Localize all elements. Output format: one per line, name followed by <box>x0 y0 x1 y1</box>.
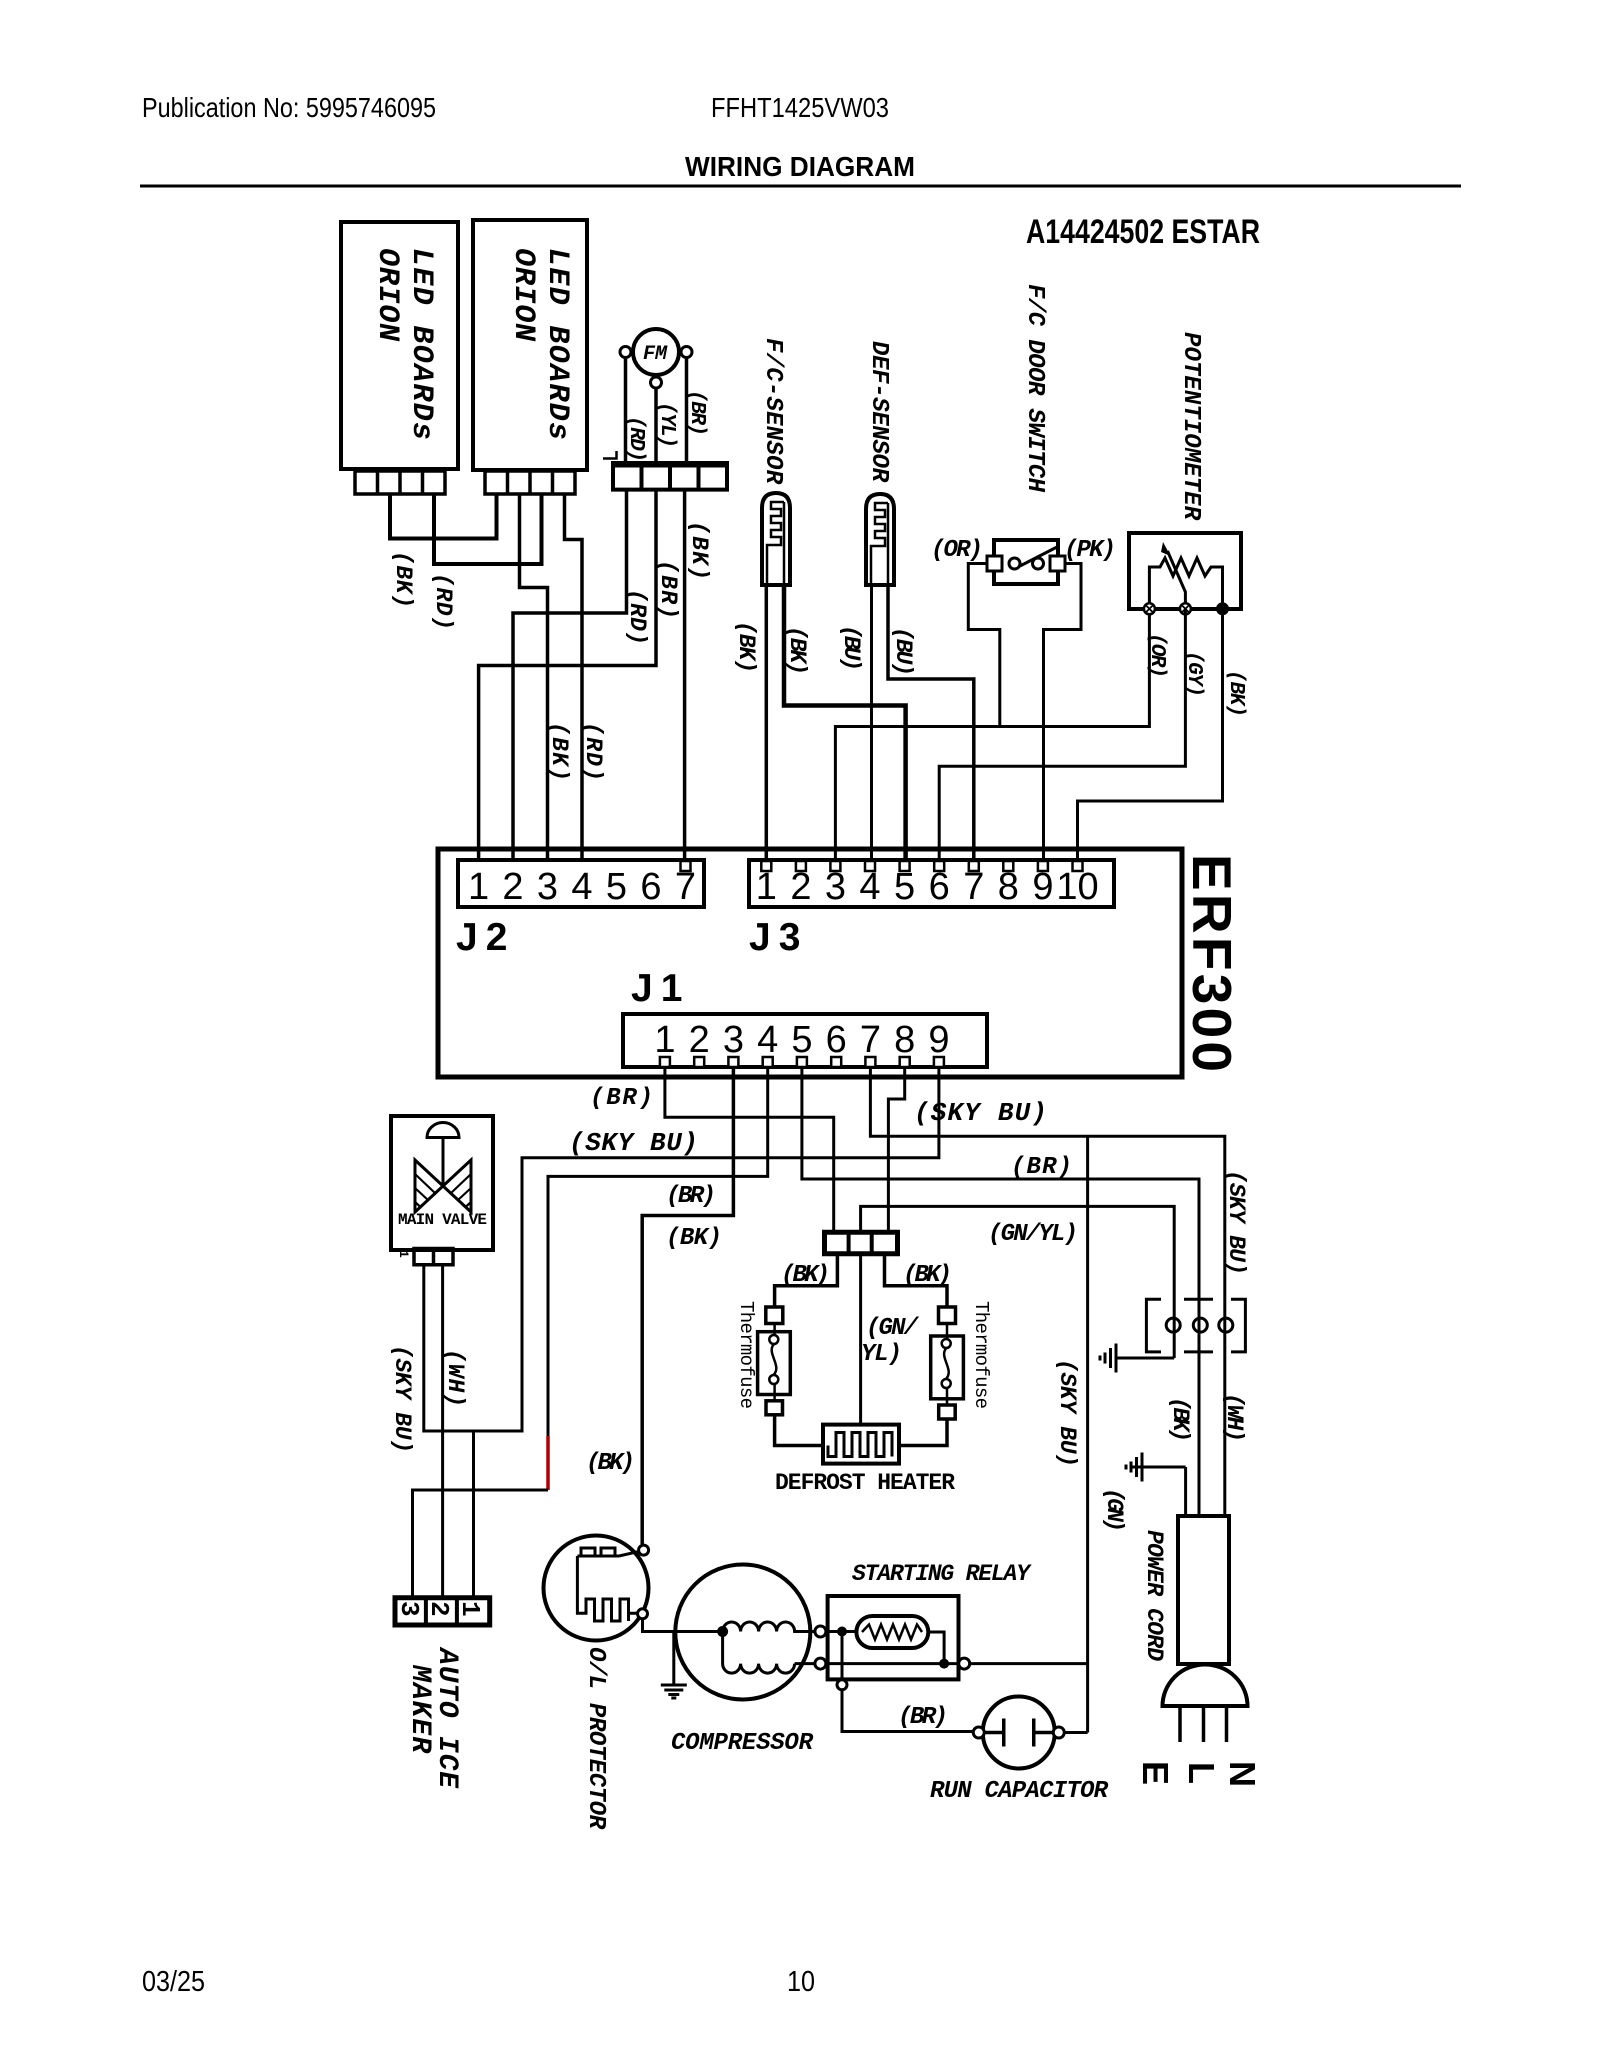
wire FM pin3 to J2 pin7 (BK) <box>683 490 687 859</box>
defrost connector dividers <box>849 1232 872 1254</box>
DEF sensor capsule <box>866 494 894 585</box>
right thermofuse bottom terminal <box>939 1405 956 1419</box>
svg-text:1: 1 <box>455 1601 485 1617</box>
door switch right terminal <box>1050 556 1065 571</box>
svg-text:FM: FM <box>643 343 668 366</box>
wire relay junction to bottom terminal <box>841 1632 844 1680</box>
svg-text:(YL): (YL) <box>655 402 678 448</box>
OL protector circle <box>544 1536 649 1641</box>
main valve connector <box>414 1249 453 1265</box>
DEF sensor right inner lead <box>887 503 890 585</box>
wire main valve right pin to icemaker pin2 (WH) <box>441 1265 444 1597</box>
svg-text:5: 5 <box>894 866 915 908</box>
svg-text:A14424502 ESTAR: A14424502 ESTAR <box>1026 213 1260 251</box>
main valve cap symbol <box>427 1123 459 1138</box>
potentiometer wiper arrowhead <box>1161 542 1171 556</box>
svg-text:7: 7 <box>860 1019 881 1061</box>
wire defrost pin2 above to right side <box>861 1206 1175 1358</box>
svg-text:F/C DOOR SWITCH: F/C DOOR SWITCH <box>1021 284 1048 493</box>
connector J3 pin numbers <box>756 866 1099 908</box>
left thermofuse body <box>758 1332 791 1395</box>
F/C sensor element <box>767 502 784 585</box>
wire LED1 pin4 to LED2 pin3 <box>434 494 542 564</box>
svg-text:(SKY BU): (SKY BU) <box>389 1345 415 1453</box>
inline connector pin circle 1 <box>1166 1318 1180 1332</box>
left thermofuse bottom terminal <box>766 1401 783 1415</box>
LED board 2 box <box>473 220 587 470</box>
FM bottom terminal <box>651 377 662 388</box>
svg-text:(BR): (BR) <box>898 1704 948 1731</box>
svg-text:(BR): (BR) <box>590 1085 653 1112</box>
OL protector top terminal <box>639 1545 649 1555</box>
door switch left terminal <box>987 556 1002 571</box>
potentiometer terminal 2 <box>1180 603 1191 614</box>
wire defrost pin2 to heater (GN/YL) <box>859 1254 862 1425</box>
relay coil zigzag <box>862 1625 922 1640</box>
F/C sensor capsule <box>762 493 790 585</box>
potentiometer resistor <box>1149 558 1222 609</box>
power plug prongs <box>1180 1706 1227 1742</box>
svg-text:2: 2 <box>502 866 523 908</box>
relay right terminal <box>959 1658 970 1669</box>
compressor start winding branch <box>723 1632 795 1674</box>
wire F/C sensor right lead to J3 pin5 (BK) <box>784 585 906 860</box>
svg-text:4: 4 <box>859 866 880 908</box>
wire J1 pin3 to OL protector (BK) <box>642 1067 733 1545</box>
inline connector middle segments <box>1184 1299 1213 1352</box>
compressor main winding <box>723 1622 815 1632</box>
left thermofuse top terminal <box>766 1307 783 1324</box>
compressor junction dot <box>717 1626 728 1637</box>
right thermofuse body <box>931 1336 964 1399</box>
wire LED1 pin2 to LED2 pin1 <box>390 494 497 539</box>
FM right terminal <box>681 347 692 358</box>
svg-text:(WH): (WH) <box>442 1349 468 1407</box>
FM left terminal <box>620 347 631 358</box>
main valve stem <box>442 1138 445 1187</box>
svg-text:ORION: ORION <box>506 248 540 342</box>
main valve bowtie symbol <box>415 1160 471 1212</box>
starting relay box <box>828 1596 959 1679</box>
svg-text:1: 1 <box>654 1019 675 1061</box>
svg-text:9: 9 <box>928 1019 949 1061</box>
wire LED2 pin4 to J2 pin4 (RD) <box>565 494 583 860</box>
wire red marked segment <box>546 1436 550 1490</box>
relay bottom terminal <box>837 1680 847 1690</box>
wire J3 pin3 to potentiometer terminal1 (OR) <box>835 609 1149 860</box>
LED board 1 box <box>341 222 458 469</box>
wire start winding to relay <box>795 1662 815 1665</box>
svg-text:(BR): (BR) <box>685 390 708 436</box>
svg-text:J1: J1 <box>631 967 690 1010</box>
svg-text:LED BOARDs: LED BOARDs <box>540 248 574 440</box>
wire J1 pin9 to main valve (SKY BU) <box>424 1067 939 1431</box>
svg-text:(RD): (RD) <box>624 416 647 462</box>
defrost heater meander <box>828 1433 892 1457</box>
left thermofuse element circles <box>769 1335 778 1344</box>
potentiometer terminal 3 junction dot <box>1216 602 1229 615</box>
svg-text:3: 3 <box>537 866 558 908</box>
svg-text:(OR): (OR) <box>1145 633 1168 678</box>
svg-text:(SKY BU): (SKY BU) <box>1223 1170 1249 1275</box>
defrost heater element box <box>823 1425 899 1464</box>
svg-text:10: 10 <box>1056 866 1098 908</box>
svg-text:(WH): (WH) <box>1221 1393 1247 1442</box>
left thermofuse element circle bottom <box>769 1375 778 1384</box>
relay terminal upper <box>815 1626 826 1637</box>
connector J3 <box>749 860 1114 907</box>
svg-text:(BK): (BK) <box>784 626 810 675</box>
wire door switch right to J3 pin9 (PK) <box>1044 564 1082 861</box>
svg-text:(BK): (BK) <box>903 1262 952 1289</box>
potentiometer box <box>1129 533 1241 609</box>
wire FM lead 2 (YL) <box>654 388 658 463</box>
icemaker connector dividers <box>426 1598 457 1625</box>
relay output junction dot <box>939 1659 949 1669</box>
inline connector pin circle 2 <box>1193 1318 1207 1332</box>
wire FM lead 3 (BR) <box>685 358 689 464</box>
svg-text:POTENTIOMETER: POTENTIOMETER <box>1177 332 1204 521</box>
wire defrost pin3 to right thermofuse (BK) <box>885 1254 948 1307</box>
wire OL bottom terminal to compressor <box>643 1619 723 1632</box>
FM connector <box>613 463 727 490</box>
svg-text:YL): YL) <box>861 1341 902 1368</box>
potentiometer wiper arrow <box>1168 551 1186 609</box>
svg-text:RUN CAPACITOR: RUN CAPACITOR <box>930 1778 1109 1805</box>
svg-text:STARTING RELAY: STARTING RELAY <box>852 1561 1032 1587</box>
wire relay input <box>826 1630 857 1633</box>
svg-text:(OR): (OR) <box>931 537 983 564</box>
connector J1 terminal squares <box>660 1057 944 1067</box>
svg-text:E: E <box>1135 1761 1176 1785</box>
svg-text:POWER CORD: POWER CORD <box>1141 1530 1167 1661</box>
svg-text:(GN): (GN) <box>1101 1488 1127 1532</box>
connector J1 <box>623 1014 987 1067</box>
wire sky-bu branch to run capacitor <box>1086 1136 1089 1732</box>
svg-text:7: 7 <box>675 866 696 908</box>
DEF sensor element <box>871 503 888 586</box>
svg-text:J2: J2 <box>456 916 515 959</box>
svg-text:(BR): (BR) <box>655 560 681 619</box>
svg-text:5: 5 <box>791 1019 812 1061</box>
wire J1 pin8 to defrost connector pin3 <box>888 1067 904 1232</box>
svg-text:(SKY BU): (SKY BU) <box>1054 1359 1080 1467</box>
wire relay right terminal to bus <box>970 1662 1088 1665</box>
wire relay lower through line <box>826 1662 959 1665</box>
svg-text:(BU): (BU) <box>890 627 916 676</box>
svg-text:MAIN VALVE: MAIN VALVE <box>398 1211 487 1229</box>
main valve bowtie hatching <box>415 1174 471 1207</box>
wire capacitor right to bus <box>1064 1731 1087 1734</box>
svg-text:Thermofuse: Thermofuse <box>970 1301 992 1409</box>
svg-text:2: 2 <box>790 866 811 908</box>
wire icemaker pin3 lower part <box>413 1490 549 1597</box>
svg-text:(BK): (BK) <box>1167 1397 1193 1442</box>
door switch box <box>994 540 1058 584</box>
svg-text:(BK): (BK) <box>666 1225 722 1252</box>
control board ERF300 box <box>438 849 1182 1077</box>
svg-text:1: 1 <box>468 866 489 908</box>
svg-text:9: 9 <box>1032 866 1053 908</box>
wire defrost pin1 to left thermofuse (BK) <box>775 1254 838 1307</box>
svg-text:Publication No: 5995746095: Publication No: 5995746095 <box>142 92 436 123</box>
LED board 1 connector <box>355 471 445 494</box>
defrost connector <box>825 1232 898 1254</box>
right thermofuse element circle bottom <box>942 1379 951 1388</box>
svg-text:MAKER: MAKER <box>404 1664 435 1754</box>
svg-text:N: N <box>1222 1761 1263 1787</box>
main valve box <box>391 1116 493 1250</box>
wire icemaker pin1 to sky-bu net <box>472 1431 475 1597</box>
run capacitor plates <box>984 1719 1053 1747</box>
svg-text:6: 6 <box>826 1019 847 1061</box>
svg-text:10: 10 <box>787 1966 815 1998</box>
svg-text:5: 5 <box>606 866 627 908</box>
OL protector element body <box>577 1552 638 1622</box>
F/C sensor right inner lead <box>783 502 786 585</box>
inline connector dashed box left bracket <box>1146 1299 1161 1352</box>
ground symbol compressor <box>661 1632 687 1699</box>
wire FM lead 1 (RD) <box>624 358 628 464</box>
wire FM pin1 to J2 pin2 (RD) <box>513 490 627 860</box>
wire FM pin2 to J2 pin1 (BR) <box>479 490 656 860</box>
connector J2 pin7 terminal square <box>681 861 691 871</box>
OL protector bottom terminal <box>638 1609 648 1619</box>
svg-text:FFHT1425VW03: FFHT1425VW03 <box>711 92 889 123</box>
svg-text:COMPRESSOR: COMPRESSOR <box>671 1730 814 1757</box>
door switch lever <box>1020 547 1057 566</box>
relay terminal lower <box>815 1658 826 1669</box>
svg-text:(BK): (BK) <box>586 1450 635 1477</box>
ground symbol 2 (GN) <box>1126 1453 1186 1517</box>
wire DEF sensor left lead to J3 pin4 (BU) <box>870 585 873 860</box>
svg-text:(SKY BU): (SKY BU) <box>914 1098 1047 1128</box>
svg-text:LED BOARDs: LED BOARDs <box>404 248 438 440</box>
svg-text:F/C-SENSOR: F/C-SENSOR <box>759 338 786 485</box>
wire DEF sensor right lead to J3 pin7 (BU) <box>888 585 974 860</box>
LED board 2 connector <box>485 471 575 494</box>
power cord box <box>1178 1516 1229 1664</box>
wire J1 pin7 sky-bu bus to power cord (WH) <box>870 1067 1224 1516</box>
connector J2 pin numbers <box>468 866 696 908</box>
svg-text:DEFROST HEATER: DEFROST HEATER <box>775 1470 955 1496</box>
svg-text:2: 2 <box>689 1019 710 1061</box>
svg-text:3: 3 <box>723 1019 744 1061</box>
wire J1 pin5 to right bus (BR) <box>802 1067 1199 1516</box>
wire potentiometer terminal3 to J3 pin10 (BK) <box>1078 609 1223 860</box>
svg-text:(RD): (RD) <box>580 722 606 781</box>
wire left thermofuse to heater <box>775 1415 823 1446</box>
wire potentiometer terminal2 to J3 pin6 (GY) <box>939 609 1185 860</box>
svg-text:(BU): (BU) <box>838 625 864 671</box>
connector J2 <box>458 860 704 907</box>
wire relay bottom to run capacitor (BR) <box>842 1690 973 1732</box>
left thermofuse element <box>772 1324 777 1401</box>
svg-text:(BK): (BK) <box>686 521 712 580</box>
svg-text:Thermofuse: Thermofuse <box>735 1301 757 1409</box>
svg-text:1: 1 <box>756 866 777 908</box>
fan motor FM circle <box>633 329 679 375</box>
relay coil stadium <box>856 1616 928 1648</box>
right thermofuse element <box>944 1324 949 1406</box>
connector J3 terminal squares <box>761 861 1082 871</box>
wire relay coil output <box>928 1632 944 1664</box>
svg-text:(BK): (BK) <box>781 1262 830 1289</box>
right thermofuse element circle top <box>942 1339 951 1348</box>
header rule <box>140 185 1461 188</box>
svg-text:DEF-SENSOR: DEF-SENSOR <box>865 341 892 483</box>
svg-text:7: 7 <box>963 866 984 908</box>
door switch contact left <box>1009 558 1020 569</box>
svg-text:6: 6 <box>929 866 950 908</box>
right thermofuse top terminal <box>939 1307 956 1324</box>
svg-text:03/25: 03/25 <box>142 1966 205 1998</box>
svg-text:(BR): (BR) <box>666 1183 716 1210</box>
run capacitor circle <box>983 1697 1055 1769</box>
svg-text:8: 8 <box>894 1019 915 1061</box>
svg-text:(RD): (RD) <box>624 589 650 645</box>
svg-text:(BR): (BR) <box>1011 1154 1072 1181</box>
wire right thermofuse to heater <box>899 1419 947 1446</box>
run capacitor right terminal <box>1053 1727 1064 1738</box>
svg-text:(PK): (PK) <box>1064 537 1116 564</box>
run capacitor left terminal <box>973 1727 984 1738</box>
svg-text:(BK): (BK) <box>733 621 759 673</box>
svg-text:3: 3 <box>394 1601 424 1617</box>
inline connector pin circle 3 <box>1219 1318 1233 1332</box>
svg-text:(RD): (RD) <box>430 573 456 630</box>
svg-text:(BK): (BK) <box>546 722 572 781</box>
svg-text:O/L PROTECTOR: O/L PROTECTOR <box>582 1647 609 1830</box>
svg-text:3: 3 <box>825 866 846 908</box>
svg-text:(BK): (BK) <box>1224 670 1247 717</box>
svg-text:(SKY BU): (SKY BU) <box>569 1128 698 1158</box>
svg-text:4: 4 <box>571 866 592 908</box>
door switch contact right <box>1033 558 1044 569</box>
wire LED2 pin2 to J2 pin3 (BK) <box>520 494 548 860</box>
wire F/C sensor left lead to J3 pin1 (BK) <box>765 585 769 860</box>
OL protector element top bumps <box>581 1548 615 1556</box>
svg-text:(GY): (GY) <box>1182 651 1205 697</box>
svg-text:6: 6 <box>640 866 661 908</box>
inline connector dashed box right bracket <box>1231 1299 1245 1352</box>
svg-text:J3: J3 <box>749 916 808 959</box>
relay input junction dot <box>837 1627 847 1637</box>
FM connector pin1 mark <box>603 451 617 459</box>
potentiometer terminal 1 <box>1144 603 1155 614</box>
svg-text:L: L <box>1181 1762 1222 1784</box>
icemaker connector <box>395 1598 490 1625</box>
svg-text:(BK): (BK) <box>390 551 416 608</box>
svg-text:ORION: ORION <box>370 248 404 342</box>
svg-text:1: 1 <box>396 1250 411 1258</box>
svg-text:(GN/YL): (GN/YL) <box>988 1221 1078 1248</box>
compressor circle <box>675 1565 810 1700</box>
svg-text:(GN/: (GN/ <box>866 1315 920 1342</box>
ground symbol 1 (GN/YL) <box>1100 1344 1174 1373</box>
wire door switch left to junction (OR) <box>968 564 1000 727</box>
wire J1 pin1 to defrost connector pin1 (BR) <box>665 1067 834 1232</box>
svg-text:WIRING DIAGRAM: WIRING DIAGRAM <box>685 151 915 182</box>
connector J1 pin numbers <box>654 1019 949 1061</box>
power plug dome <box>1163 1665 1248 1707</box>
svg-text:8: 8 <box>998 866 1019 908</box>
svg-text:4: 4 <box>757 1019 778 1061</box>
svg-text:2: 2 <box>424 1601 454 1617</box>
wire J1 pin4 to icemaker pin3 upper part (BR) <box>548 1067 768 1436</box>
